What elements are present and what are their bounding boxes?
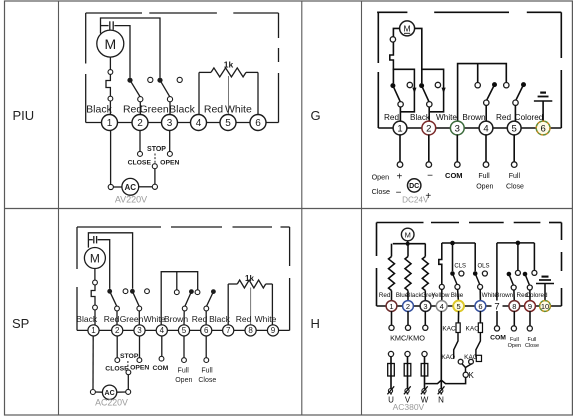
PIU terminal bus wire bbox=[86, 122, 279, 124]
svg-text:H: H bbox=[311, 316, 320, 331]
svg-text:Green: Green bbox=[120, 314, 144, 324]
svg-text:Full: Full bbox=[509, 173, 521, 180]
G lead-out contact circle 4 bbox=[483, 162, 489, 168]
svg-text:AC220V: AC220V bbox=[95, 397, 128, 407]
H wire CLS to terminal 5 bbox=[457, 289, 460, 301]
svg-text:6: 6 bbox=[540, 123, 545, 134]
H KAC coil bbox=[456, 323, 460, 333]
svg-text:AV220V: AV220V bbox=[115, 195, 147, 205]
svg-text:5: 5 bbox=[512, 123, 517, 134]
SP AC source right contact circle bbox=[126, 389, 131, 394]
H winding bus junction dot bbox=[406, 242, 410, 246]
PIU selector common contact circle bbox=[152, 164, 157, 169]
H enclosure dashed right edge bbox=[561, 223, 563, 241]
svg-text:AC: AC bbox=[105, 390, 115, 397]
svg-text:Black: Black bbox=[169, 104, 195, 116]
svg-text:Close: Close bbox=[525, 343, 539, 349]
svg-text:6: 6 bbox=[204, 326, 209, 335]
PIU thermal protector contact circle upper bbox=[108, 70, 113, 75]
H wire K junction down bbox=[465, 368, 467, 373]
SP wire motor to protector bbox=[94, 269, 96, 281]
svg-text:+: + bbox=[396, 171, 402, 182]
G enclosure dashed left edge bbox=[377, 12, 379, 63]
PIU motor loop top wire bbox=[101, 18, 161, 78]
G wire terminal 5 lead-out bbox=[513, 135, 515, 162]
PIU switch S2 pivot dot bbox=[157, 78, 162, 83]
PIU switch S1 spare contact bbox=[148, 77, 153, 82]
SP switch S2 spare contact bbox=[145, 289, 150, 294]
SP switch S3 pivot dot bbox=[189, 289, 194, 294]
SP terminal 8 bbox=[245, 325, 256, 336]
svg-text:1: 1 bbox=[91, 326, 96, 335]
svg-text:CLOSE: CLOSE bbox=[105, 365, 129, 372]
svg-text:Full: Full bbox=[201, 367, 213, 374]
svg-text:KAO: KAO bbox=[466, 325, 480, 332]
table row divider bbox=[5, 208, 573, 210]
G wire lead down to protector bbox=[392, 42, 394, 52]
H wire terminal 8 lead-out bbox=[513, 311, 515, 326]
SP terminal 9 bbox=[267, 325, 278, 336]
H disconnect point W bbox=[422, 389, 426, 393]
SP terminal 3 bbox=[134, 325, 145, 336]
H wire OLS to terminal 6 bbox=[479, 289, 481, 301]
svg-text:M: M bbox=[104, 36, 116, 52]
svg-text:−: − bbox=[396, 188, 402, 199]
SP terminal bus wire bbox=[77, 329, 290, 331]
svg-text:Red: Red bbox=[379, 292, 391, 299]
H KAC contact circle bbox=[469, 359, 474, 364]
G wire K4 to terminal 5 bbox=[514, 105, 516, 121]
H wire terminal 6 down to KAO coil bbox=[479, 311, 481, 323]
H supply branch U contact circle bbox=[388, 351, 393, 356]
svg-text:−: − bbox=[427, 171, 433, 182]
svg-text:K: K bbox=[469, 371, 475, 380]
svg-text:Green: Green bbox=[140, 104, 169, 116]
PIU enclosure dashed right edge bbox=[278, 13, 280, 38]
PIU CLOSE contact circle bbox=[138, 151, 143, 156]
PIU wire protector to terminal 1 bbox=[109, 101, 111, 115]
G switch K4 lower contact bbox=[513, 100, 518, 105]
svg-text:3: 3 bbox=[167, 118, 173, 129]
SP switch S2 lower contact bbox=[137, 306, 142, 311]
PIU wire resistor right to terminal 6 bbox=[257, 72, 259, 114]
G wire K3 to terminal 4 bbox=[485, 105, 487, 121]
svg-text:3: 3 bbox=[423, 302, 427, 311]
PIU thermal protector jog bbox=[106, 74, 110, 96]
H enclosure dashed left edge bbox=[376, 223, 378, 257]
svg-text:Brown: Brown bbox=[495, 292, 513, 299]
G lead-out contact circle 5 bbox=[511, 162, 517, 168]
SP switch S1 spare contact bbox=[123, 289, 128, 294]
SP capacitor C2 plates bbox=[93, 236, 95, 243]
PIU wire S1 to terminal 2 bbox=[139, 102, 141, 115]
H wire KAO coil down bbox=[476, 333, 481, 358]
svg-text:1: 1 bbox=[397, 123, 402, 134]
SP wire AC left bbox=[95, 391, 102, 393]
H wire terminal 1 lead-out bbox=[391, 311, 393, 325]
SP switch S2 pivot dot bbox=[130, 289, 135, 294]
SP capacitor C2 wire right and drop bbox=[98, 240, 110, 289]
G limit switch K1 cam arrow bbox=[412, 88, 416, 94]
svg-text:Black: Black bbox=[406, 292, 422, 299]
SP enclosure dashed top edge bbox=[77, 226, 161, 228]
SP Full Open contact circle bbox=[182, 358, 187, 363]
SP switch S1 pivot dot bbox=[107, 289, 112, 294]
PIU AC source G1 bbox=[122, 178, 139, 195]
SP STOP dashed link bbox=[127, 361, 129, 369]
svg-text:Open: Open bbox=[508, 343, 521, 349]
SP Full Close contact circle bbox=[204, 358, 209, 363]
H enclosure dashed top edge bbox=[377, 222, 424, 224]
SP wire AC right bbox=[117, 391, 126, 393]
PIU enclosure dashed top edge bbox=[86, 12, 142, 14]
H CLS switch blade bbox=[453, 274, 458, 285]
svg-text:2: 2 bbox=[137, 118, 143, 129]
G switch K3 pivot dot bbox=[492, 82, 497, 87]
H wire terminal 9 lead-out bbox=[529, 311, 531, 326]
SP selector common contact circle bbox=[126, 370, 131, 375]
H K5 lower contact bbox=[511, 285, 516, 290]
H terminal 3 bbox=[420, 301, 431, 312]
H OLS switch pivot dot bbox=[473, 271, 478, 276]
svg-text:KAC: KAC bbox=[442, 325, 456, 332]
H KAO coil bbox=[478, 323, 482, 333]
H OLS switch blade bbox=[475, 274, 480, 285]
H supply branch W contact circle bbox=[422, 351, 427, 356]
G switch K1 blade bbox=[393, 86, 401, 102]
G ground symbol bbox=[542, 101, 544, 121]
SP wire terminal 3 down to OPEN contact bbox=[139, 336, 141, 358]
SP wire S3 to terminal 5 bbox=[183, 311, 185, 325]
PIU wire AC right bbox=[138, 186, 153, 188]
H wire K6 to terminal 9 bbox=[529, 290, 531, 301]
svg-text:Colored: Colored bbox=[515, 113, 544, 122]
G wire motor right lead bbox=[415, 28, 422, 83]
G wire K1 to terminal 1 bbox=[399, 107, 401, 121]
H terminal 10 bbox=[540, 301, 551, 312]
SP feedback contact circle b bbox=[195, 290, 200, 295]
svg-text:Full: Full bbox=[178, 367, 190, 374]
H limit box top wire bbox=[442, 242, 475, 244]
SP switch S3 blade bbox=[185, 292, 192, 307]
H winding bus wire bbox=[393, 243, 426, 245]
svg-text:Brown: Brown bbox=[164, 314, 188, 324]
H switch K5 pivot dot bbox=[507, 272, 512, 277]
PIU enclosure dashed left edge bbox=[85, 13, 87, 64]
PIU terminal 1 bbox=[102, 115, 118, 131]
H winding W2 bbox=[407, 244, 409, 257]
G thermal protector notch bbox=[390, 52, 394, 69]
svg-text:COM: COM bbox=[445, 171, 463, 180]
SP thermal protector contact circle upper bbox=[93, 280, 98, 285]
H wire KAC contact to K junction bbox=[466, 364, 472, 368]
PIU terminal 6 bbox=[250, 115, 266, 131]
svg-text:Red: Red bbox=[204, 104, 223, 116]
H wire terminal 5 down to KAC coil bbox=[457, 311, 459, 323]
G wire motor left lead bbox=[393, 28, 399, 36]
svg-text:White: White bbox=[255, 314, 277, 324]
H terminal 6 bbox=[475, 301, 486, 312]
SP capacitor C2 wire left bbox=[88, 239, 92, 241]
G lead-out contact circle 1 bbox=[397, 162, 403, 168]
G wire terminal 3 lead-out bbox=[456, 135, 458, 162]
SP enclosure dashed right edge bbox=[289, 227, 291, 266]
H OLS lower contact bbox=[478, 284, 483, 289]
H COM contact circle bbox=[494, 326, 499, 331]
G terminal 3 bbox=[450, 121, 464, 135]
H lead-out contact circle 2 bbox=[405, 325, 410, 330]
svg-text:5: 5 bbox=[182, 326, 187, 335]
H relay box junction dot bbox=[516, 241, 521, 246]
SP terminal 7 bbox=[223, 325, 234, 336]
svg-text:STOP: STOP bbox=[120, 353, 139, 360]
svg-text:DC: DC bbox=[409, 183, 419, 190]
H OLS switch feed wire bbox=[474, 243, 476, 271]
G switch K2 blade bbox=[422, 86, 430, 102]
SP feedback bus wire bbox=[161, 272, 198, 326]
H wire KAO contact to K junction bbox=[462, 364, 466, 368]
PIU AC source right contact circle bbox=[152, 184, 157, 189]
PIU switch S1 lower contact bbox=[138, 97, 143, 102]
SP switch S1 blade bbox=[110, 291, 117, 306]
G switch K1 pivot dot bbox=[390, 83, 395, 88]
svg-text:4: 4 bbox=[196, 118, 202, 129]
svg-text:5: 5 bbox=[457, 302, 461, 311]
H CLS spare contact bbox=[459, 271, 464, 276]
SP OPEN contact circle bbox=[137, 358, 142, 363]
svg-text:KMC/KMO: KMC/KMO bbox=[390, 334, 425, 343]
PIU switch S2 blade bbox=[160, 80, 170, 97]
H fuse U bbox=[390, 357, 392, 395]
PIU switch S2 spare contact bbox=[177, 77, 182, 82]
svg-text:2: 2 bbox=[406, 302, 410, 311]
svg-text:Open: Open bbox=[476, 184, 493, 191]
PIU wire terminal 3 down to OPEN contact bbox=[169, 131, 171, 152]
PIU wire terminal 2 down to CLOSE contact bbox=[139, 131, 141, 152]
svg-text:N: N bbox=[438, 395, 444, 404]
H KAC contact link box bbox=[476, 355, 481, 361]
PIU thermal protector contact circle lower bbox=[108, 96, 113, 101]
svg-text:Blue: Blue bbox=[451, 292, 464, 299]
G lead-out contact circle 3 bbox=[455, 162, 461, 168]
H ground symbol bbox=[544, 284, 546, 302]
G DC source B1 bbox=[408, 179, 421, 192]
G wire terminal 2 lead-out bbox=[428, 135, 430, 162]
table column divider 1 bbox=[58, 1, 60, 415]
H wire relay box left to node 7 bbox=[496, 243, 498, 302]
SP wire selector common down bbox=[127, 375, 129, 390]
G enclosure dashed right edge bbox=[560, 12, 562, 58]
SP wire terminal 5 down to Full Open contact bbox=[183, 336, 185, 358]
H lead-out contact circle 8 bbox=[511, 326, 516, 331]
H wire K5 to terminal 8 bbox=[513, 290, 515, 301]
H fuse V bbox=[407, 357, 409, 395]
G terminal 6 bbox=[536, 121, 550, 135]
G terminal 4 bbox=[479, 121, 493, 135]
G motor lead contact circle bbox=[390, 37, 395, 42]
H limit box wire to terminal 4 bbox=[439, 243, 442, 284]
PIU capacitor C1 wire right and drop to switch bbox=[114, 26, 130, 78]
G wire K2 to terminal 2 bbox=[428, 107, 430, 121]
H wire terminal 4 down to N bbox=[440, 311, 442, 395]
SP motor loop top wire bbox=[88, 233, 132, 289]
H CLS switch feed wire bbox=[452, 243, 454, 271]
SP thermal protector contact circle lower bbox=[93, 305, 98, 310]
G limit switch K2 frame bbox=[422, 69, 444, 112]
svg-text:Red: Red bbox=[496, 113, 511, 122]
svg-text:6: 6 bbox=[255, 118, 261, 129]
svg-text:M: M bbox=[404, 24, 411, 34]
PIU wire terminal 1 down to AC source bbox=[110, 131, 112, 185]
SP switch S1 lower contact bbox=[115, 306, 120, 311]
H switch K5 blade bbox=[509, 274, 514, 285]
H terminal 5 bbox=[453, 301, 464, 312]
H switch K6 blade bbox=[525, 274, 530, 285]
G motor M2 bbox=[400, 21, 415, 36]
svg-text:Black: Black bbox=[86, 104, 112, 116]
SP resistor R2 bbox=[228, 283, 237, 285]
svg-text:1: 1 bbox=[389, 302, 393, 311]
svg-text:Black: Black bbox=[209, 314, 231, 324]
svg-text:4: 4 bbox=[483, 123, 488, 134]
svg-text:PIU: PIU bbox=[13, 108, 35, 123]
H terminal 9 bbox=[525, 301, 536, 312]
H relay feed contact a bbox=[517, 243, 519, 270]
SP wire terminal 6 down to Full Close contact bbox=[205, 336, 207, 358]
PIU AC source left contact circle bbox=[108, 184, 113, 189]
SP wire S2 to terminal 3 bbox=[138, 311, 140, 325]
G limit switch K1 frame bbox=[393, 69, 415, 112]
H wire contact to terminal 4 bbox=[441, 289, 443, 301]
PIU terminal 2 bbox=[132, 115, 148, 131]
G enclosure dashed top edge bbox=[377, 11, 407, 13]
svg-text:AC: AC bbox=[125, 183, 137, 192]
H lead-out contact circle 1 bbox=[389, 325, 394, 330]
PIU motor M1 bbox=[97, 30, 124, 57]
svg-text:Full: Full bbox=[478, 173, 490, 180]
svg-text:OPEN: OPEN bbox=[130, 365, 149, 372]
H terminal 4 contact circle bbox=[439, 284, 444, 289]
PIU capacitor C1 wire left bbox=[101, 25, 109, 27]
G switch K2 lower contact bbox=[427, 102, 432, 107]
svg-text:COM: COM bbox=[490, 335, 506, 342]
svg-text:Brown: Brown bbox=[462, 113, 486, 122]
H OLS spare contact bbox=[482, 271, 487, 276]
H K contact circle bbox=[463, 372, 468, 377]
SP COM contact circle bbox=[159, 356, 164, 361]
svg-text:White: White bbox=[225, 104, 252, 116]
PIU capacitor C1 plates bbox=[109, 21, 111, 30]
svg-text:Colored: Colored bbox=[525, 292, 548, 299]
G switch K1 lower contact bbox=[398, 102, 403, 107]
G terminal 5 bbox=[507, 121, 521, 135]
SP wire resistor right to terminal 9 bbox=[271, 284, 273, 325]
G switch K4 blade bbox=[516, 85, 524, 101]
SP wire resistor left to terminal 7 bbox=[227, 284, 229, 325]
G terminal 2 bbox=[422, 121, 436, 135]
svg-text:9: 9 bbox=[528, 302, 532, 311]
SP thermal protector jog bbox=[91, 285, 95, 305]
svg-text:Red: Red bbox=[384, 113, 399, 122]
svg-text:White: White bbox=[144, 314, 166, 324]
H CLS switch pivot dot bbox=[450, 271, 455, 276]
H wire KAC coil down bbox=[454, 333, 458, 359]
svg-text:8: 8 bbox=[248, 326, 253, 335]
H terminal 8 bbox=[509, 301, 520, 312]
H lead-out contact circle 9 bbox=[527, 326, 532, 331]
PIU wire motor to thermal protector bbox=[109, 57, 111, 70]
G feedback bus wire bbox=[458, 64, 507, 122]
SP wire S4 to terminal 6 bbox=[205, 311, 207, 325]
G switch K2 spare contact bbox=[435, 82, 440, 87]
SP wire bus drop a bbox=[176, 272, 178, 290]
PIU wire S2 to terminal 3 bbox=[169, 102, 171, 115]
svg-text:7: 7 bbox=[226, 326, 231, 335]
SP terminal 5 bbox=[178, 325, 189, 336]
table column divider 3 bbox=[361, 1, 363, 415]
SP terminal 6 bbox=[201, 325, 212, 336]
H terminal bus wire bbox=[377, 305, 562, 307]
svg-text:M: M bbox=[405, 230, 411, 239]
SP wire terminal 4 down to COM contact bbox=[161, 336, 163, 357]
G wire bus drop a bbox=[477, 64, 479, 83]
svg-text:Black: Black bbox=[76, 314, 98, 324]
svg-text:Open: Open bbox=[175, 377, 192, 384]
H winding W1 bbox=[391, 244, 393, 257]
svg-text:COM: COM bbox=[152, 365, 168, 372]
SP switch S4 pivot dot bbox=[211, 289, 216, 294]
svg-text:G: G bbox=[311, 108, 321, 123]
H lead-out contact circle 3 bbox=[423, 325, 428, 330]
H relay box top wire bbox=[497, 242, 535, 244]
svg-text:1: 1 bbox=[107, 118, 113, 129]
svg-text:CLS: CLS bbox=[454, 263, 466, 269]
G terminal 1 bbox=[393, 121, 407, 135]
H motor M4 bbox=[401, 228, 414, 241]
svg-text:3: 3 bbox=[455, 123, 460, 134]
svg-text:Open: Open bbox=[372, 173, 390, 182]
SP switch S3 lower contact bbox=[182, 306, 187, 311]
G wire terminal 4 lead-out bbox=[485, 135, 487, 162]
H winding W3 bbox=[424, 244, 426, 257]
svg-text:AC380V: AC380V bbox=[393, 402, 425, 412]
G switch K1 spare contact bbox=[407, 82, 412, 87]
SP AC source G2 bbox=[102, 385, 116, 399]
H limit box junction dot bbox=[450, 241, 455, 246]
PIU wire resistor left to terminal 4 bbox=[198, 72, 200, 114]
G switch K2 pivot dot bbox=[419, 83, 424, 88]
SP terminal 2 bbox=[112, 325, 123, 336]
SP wire terminal 1 down to AC source bbox=[92, 336, 94, 390]
svg-text:Red: Red bbox=[104, 314, 120, 324]
H wire motor to winding bus bbox=[407, 241, 409, 244]
H wire K to W line with hop over N bbox=[425, 377, 465, 383]
SP motor M3 bbox=[84, 248, 105, 269]
SP enclosure dashed left edge bbox=[76, 227, 78, 269]
svg-text:8: 8 bbox=[512, 302, 516, 311]
svg-text:DC24V: DC24V bbox=[402, 195, 429, 204]
svg-text:10: 10 bbox=[541, 302, 549, 311]
table column divider 2 bbox=[301, 1, 303, 415]
SP wire terminal 2 down to CLOSE contact bbox=[116, 336, 118, 358]
SP wire protector to terminal 1 bbox=[94, 310, 96, 325]
svg-text:2: 2 bbox=[426, 123, 431, 134]
H wire terminal 3 lead-out bbox=[424, 311, 426, 325]
svg-text:4: 4 bbox=[160, 326, 165, 335]
H CLS lower contact bbox=[455, 284, 460, 289]
SP switch S2 blade bbox=[132, 291, 139, 306]
G feedback contact circle a bbox=[475, 83, 480, 88]
